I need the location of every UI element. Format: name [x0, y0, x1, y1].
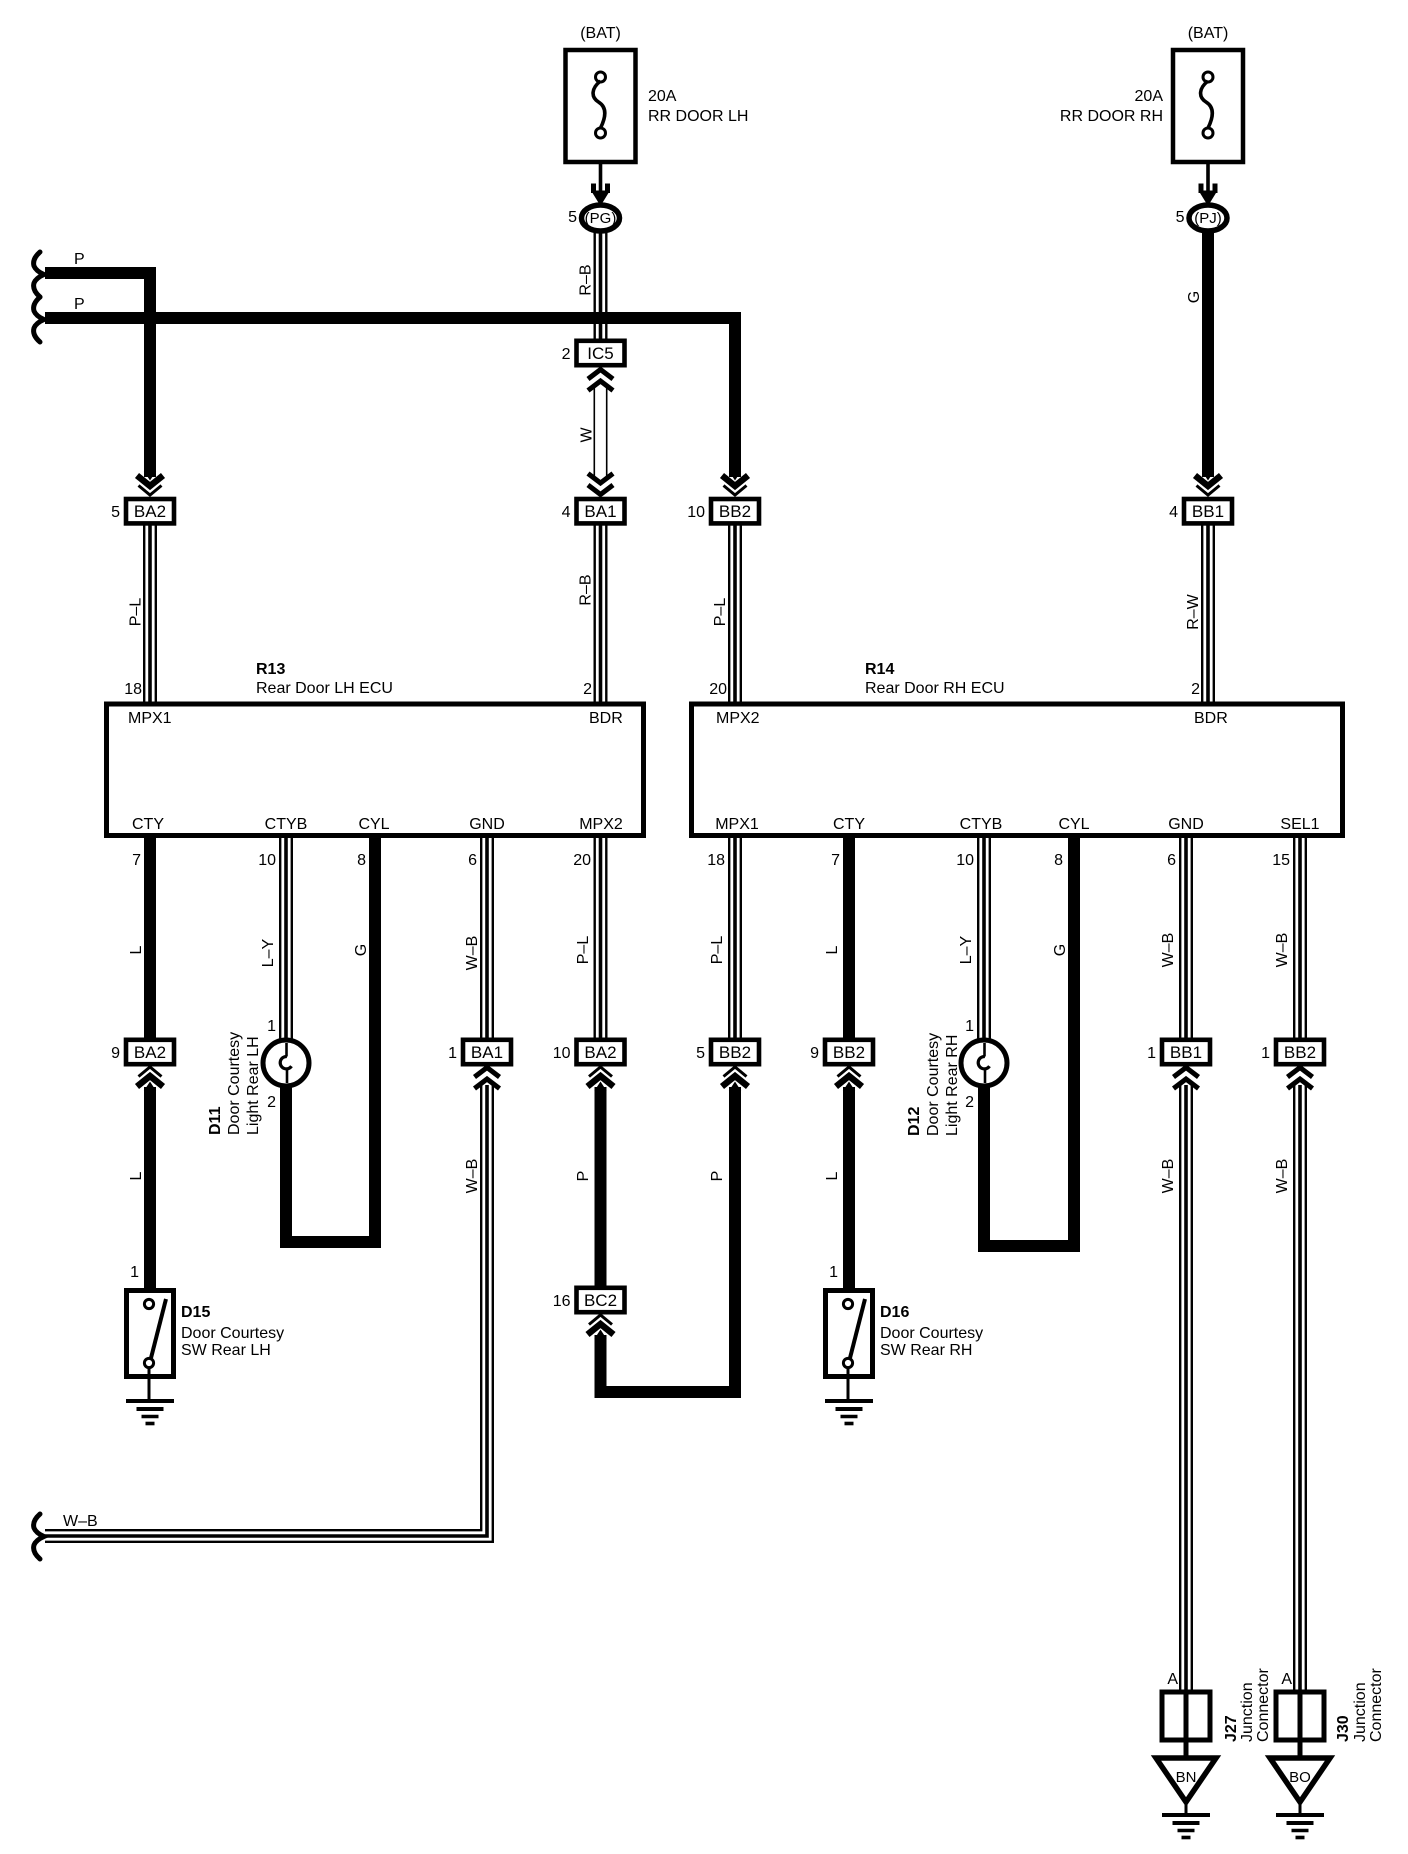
wire R-B from BA1 pin 4 to R13 BDR pin 2	[594, 520, 608, 704]
svg-text:W–B: W–B	[1160, 1159, 1177, 1194]
svg-text:16: 16	[553, 1293, 571, 1310]
arrow into BB2 pin 9	[838, 1067, 861, 1077]
svg-text:CYL: CYL	[1058, 816, 1089, 833]
svg-text:BB2: BB2	[719, 1043, 751, 1062]
wire P-L from R13 MPX2 pin 20 to BA2 pin 10	[594, 836, 608, 1042]
svg-text:10: 10	[553, 1045, 571, 1062]
svg-text:BN: BN	[1176, 1769, 1197, 1786]
ground	[1276, 1813, 1324, 1817]
wire W-B from BA1 pin 1 to left harness	[45, 1085, 487, 1536]
svg-text:10: 10	[687, 504, 705, 521]
svg-text:R13: R13	[256, 661, 285, 678]
svg-text:L: L	[824, 945, 841, 954]
svg-text:Door Courtesy: Door Courtesy	[880, 1325, 983, 1342]
wire thin fuse LH to arrow	[599, 160, 603, 192]
svg-text:P–L: P–L	[575, 936, 592, 965]
svg-text:BA2: BA2	[134, 1043, 166, 1062]
svg-text:L: L	[128, 945, 145, 954]
svg-text:L–Y: L–Y	[260, 938, 277, 967]
svg-text:W: W	[579, 427, 596, 443]
connector 10 BA2	[577, 1040, 625, 1064]
svg-text:BC2: BC2	[584, 1291, 617, 1310]
svg-text:A: A	[1281, 1671, 1292, 1688]
wire L from R14 CTY pin 7 to BB2 pin 9	[843, 836, 855, 1042]
lamp D11 Door Courtesy Light Rear LH	[263, 1040, 309, 1086]
svg-text:RR DOOR RH: RR DOOR RH	[1060, 108, 1163, 125]
harness continuation brace	[34, 252, 44, 297]
svg-text:6: 6	[1167, 852, 1176, 869]
svg-text:1: 1	[1147, 1045, 1156, 1062]
svg-text:BB2: BB2	[833, 1043, 865, 1062]
arrow into PJ	[1199, 191, 1218, 207]
arrow into BB1 pin 1	[1174, 1068, 1199, 1078]
svg-text:SW Rear RH: SW Rear RH	[880, 1342, 972, 1359]
svg-text:BB2: BB2	[719, 502, 751, 521]
connector 1 BB2	[1276, 1040, 1324, 1064]
connector 4 BA1	[577, 499, 625, 523]
svg-text:1: 1	[448, 1045, 457, 1062]
svg-text:10: 10	[956, 852, 974, 869]
svg-text:Door Courtesy: Door Courtesy	[181, 1325, 284, 1342]
svg-text:R–B: R–B	[578, 264, 595, 295]
connector 9 BA2	[126, 1040, 174, 1064]
svg-text:5: 5	[568, 209, 577, 226]
fuse 20A RR DOOR RH	[1173, 50, 1243, 162]
svg-text:Door Courtesy: Door Courtesy	[925, 1033, 942, 1136]
svg-text:(PG): (PG)	[585, 210, 617, 227]
svg-text:20: 20	[573, 852, 591, 869]
ground	[825, 1399, 873, 1403]
svg-text:Connector: Connector	[1255, 1668, 1272, 1742]
wire W from IC5 to BA1	[594, 384, 608, 478]
wire W-B from BB2 to junction connector J30	[1293, 1085, 1307, 1694]
svg-text:R–B: R–B	[578, 574, 595, 605]
svg-text:8: 8	[357, 852, 366, 869]
svg-text:4: 4	[562, 504, 571, 521]
svg-text:BA1: BA1	[471, 1043, 503, 1062]
wire L from BA2 pin 9 to switch D15 pin 1	[144, 1087, 156, 1291]
svg-text:(BAT): (BAT)	[1188, 25, 1229, 42]
svg-text:MPX1: MPX1	[715, 816, 759, 833]
wire P-L from R14 MPX1 pin 18 to BB2 pin 5	[728, 836, 742, 1042]
svg-text:W–B: W–B	[1274, 1159, 1291, 1194]
svg-text:BDR: BDR	[1194, 710, 1228, 727]
wire thin fuse RH to arrow	[1206, 160, 1210, 192]
svg-text:P: P	[709, 1171, 726, 1182]
svg-text:W–B: W–B	[464, 936, 481, 971]
connector 1 BA1	[463, 1040, 511, 1064]
svg-text:20A: 20A	[1135, 88, 1164, 105]
fuse 20A RR DOOR LH	[566, 50, 636, 162]
svg-text:MPX1: MPX1	[128, 710, 172, 727]
connector 2 IC5	[577, 341, 625, 365]
wire G loop from lamp D11 pin 2 to R13 CYL pin 8	[286, 836, 375, 1242]
svg-text:7: 7	[132, 852, 141, 869]
svg-text:CYL: CYL	[358, 816, 389, 833]
svg-text:5: 5	[111, 504, 120, 521]
connector 4 BB1	[1184, 499, 1232, 523]
connector 10 BB2	[711, 499, 759, 523]
connector 16 BC2	[577, 1288, 625, 1312]
svg-text:1: 1	[1261, 1045, 1270, 1062]
svg-text:GND: GND	[1168, 816, 1204, 833]
arrow into BA2 pin 10	[589, 1067, 612, 1077]
svg-text:1: 1	[965, 1018, 974, 1035]
svg-text:D15: D15	[181, 1304, 210, 1321]
svg-text:18: 18	[124, 681, 142, 698]
svg-text:G: G	[1052, 944, 1069, 956]
svg-text:7: 7	[831, 852, 840, 869]
svg-text:Rear Door LH ECU: Rear Door LH ECU	[256, 680, 393, 697]
harness continuation brace	[34, 297, 44, 342]
wire G from PJ to BB1 pin 4	[1202, 222, 1214, 477]
connector 1 BB1	[1162, 1040, 1210, 1064]
svg-text:Light Rear LH: Light Rear LH	[245, 1036, 262, 1135]
ground	[1162, 1813, 1210, 1817]
svg-text:J27: J27	[1223, 1715, 1240, 1742]
svg-text:BDR: BDR	[589, 710, 623, 727]
arrow into BC2 pin 16	[589, 1315, 612, 1325]
svg-text:1: 1	[267, 1018, 276, 1035]
svg-text:L: L	[128, 1171, 145, 1180]
wire P-L from BA2 pin 5 to R13 MPX1 pin 18	[143, 520, 157, 704]
svg-text:2: 2	[583, 681, 592, 698]
svg-text:P–L: P–L	[712, 598, 729, 627]
svg-text:L: L	[824, 1171, 841, 1180]
svg-text:D16: D16	[880, 1304, 909, 1321]
svg-text:8: 8	[1054, 852, 1063, 869]
arrow into BB2 pin 10	[724, 486, 747, 496]
arrow into BA2 pin 9	[139, 1067, 162, 1077]
svg-text:5: 5	[1176, 209, 1185, 226]
svg-text:CTY: CTY	[132, 816, 164, 833]
wire R-B from PG to IC5	[594, 222, 608, 343]
svg-text:(PJ): (PJ)	[1194, 210, 1222, 227]
wire P-L from BB2 pin 10 to R14 MPX2 pin 20	[728, 520, 742, 704]
svg-text:BB1: BB1	[1192, 502, 1224, 521]
connector 5 BA2	[126, 499, 174, 523]
wire W-B from BB1 to junction connector J27	[1179, 1085, 1193, 1694]
svg-text:1: 1	[829, 1264, 838, 1281]
svg-text:20A: 20A	[648, 88, 677, 105]
ECU R14 Rear Door RH ECU	[692, 704, 1343, 836]
svg-text:SEL1: SEL1	[1280, 816, 1319, 833]
ground triangle BO	[1270, 1758, 1330, 1802]
svg-text:BA2: BA2	[584, 1043, 616, 1062]
arrow into BB1 pin 4	[1197, 486, 1220, 496]
wire P bus lower from harness to BB2 pin 10	[45, 318, 735, 477]
svg-text:CTYB: CTYB	[960, 816, 1003, 833]
svg-text:Rear Door RH ECU: Rear Door RH ECU	[865, 680, 1005, 697]
wire W-B from R14 GND pin 6 to BB1 pin 1	[1179, 836, 1193, 1042]
wire R-W from BB1 pin 4 to R14 BDR pin 2	[1201, 520, 1215, 704]
svg-text:P: P	[74, 296, 85, 313]
svg-text:5: 5	[696, 1045, 705, 1062]
svg-text:P–L: P–L	[128, 598, 145, 627]
svg-text:A: A	[1167, 1671, 1178, 1688]
svg-text:BA2: BA2	[134, 502, 166, 521]
svg-text:Light Rear RH: Light Rear RH	[944, 1035, 961, 1136]
svg-text:L–Y: L–Y	[958, 935, 975, 964]
wire L from R13 CTY pin 7 to BA2 pin 9	[144, 836, 156, 1042]
svg-text:9: 9	[111, 1045, 120, 1062]
ground triangle BN	[1156, 1758, 1216, 1802]
wire L from BB2 pin 9 to switch D16 pin 1	[843, 1087, 855, 1291]
svg-text:W–B: W–B	[1274, 933, 1291, 968]
svg-text:G: G	[353, 944, 370, 956]
svg-text:RR DOOR LH: RR DOOR LH	[648, 108, 748, 125]
arrow into PG	[591, 191, 610, 207]
svg-text:R–W: R–W	[1185, 593, 1202, 629]
svg-text:CTYB: CTYB	[265, 816, 308, 833]
wire P loop from BC2 pin 16 to BB2 pin 5	[601, 1087, 736, 1392]
svg-text:W–B: W–B	[464, 1159, 481, 1194]
svg-text:P: P	[74, 251, 85, 268]
svg-text:SW Rear LH: SW Rear LH	[181, 1342, 271, 1359]
svg-text:(BAT): (BAT)	[580, 25, 621, 42]
svg-text:MPX2: MPX2	[716, 710, 760, 727]
svg-text:MPX2: MPX2	[579, 816, 623, 833]
svg-text:P: P	[575, 1171, 592, 1182]
svg-text:W–B: W–B	[63, 1513, 98, 1530]
svg-text:IC5: IC5	[587, 344, 613, 363]
connector oval PG	[582, 205, 620, 231]
svg-text:2: 2	[965, 1094, 974, 1111]
arrow into BB2 pin 1 (SEL1)	[1288, 1068, 1313, 1078]
ECU R13 Rear Door LH ECU	[107, 704, 644, 836]
svg-text:20: 20	[709, 681, 727, 698]
svg-text:1: 1	[130, 1264, 139, 1281]
svg-text:D12: D12	[906, 1107, 923, 1136]
svg-text:10: 10	[258, 852, 276, 869]
svg-text:Connector: Connector	[1368, 1668, 1385, 1742]
wire W-B from R14 SEL1 pin 15 to BB2 pin 1	[1293, 836, 1307, 1042]
arrow into BB2 pin 5	[724, 1067, 747, 1077]
wire L-Y from R13 CTYB pin 10 to lamp D11 pin 1	[279, 836, 293, 1048]
svg-text:P–L: P–L	[709, 936, 726, 965]
harness continuation brace	[34, 1514, 44, 1559]
svg-text:18: 18	[707, 852, 725, 869]
wire G loop from lamp D12 pin 2 to R14 CYL pin 8	[984, 836, 1074, 1246]
svg-text:2: 2	[562, 346, 571, 363]
wire P bus upper from harness to BA2 pin 5	[45, 273, 150, 477]
wire L-Y from R14 CTYB pin 10 to lamp D12 pin 1	[977, 836, 991, 1048]
svg-text:Junction: Junction	[1352, 1682, 1369, 1742]
svg-text:BO: BO	[1289, 1769, 1311, 1786]
svg-text:W–B: W–B	[1160, 933, 1177, 968]
svg-text:CTY: CTY	[833, 816, 865, 833]
svg-text:BA1: BA1	[584, 502, 616, 521]
arrow into BA1 pin 4	[588, 485, 613, 495]
svg-text:6: 6	[468, 852, 477, 869]
svg-text:BB2: BB2	[1284, 1043, 1316, 1062]
svg-text:BB1: BB1	[1170, 1043, 1202, 1062]
lamp D12 Door Courtesy Light Rear RH	[961, 1040, 1007, 1086]
svg-text:4: 4	[1169, 504, 1178, 521]
connector 9 BB2	[825, 1040, 873, 1064]
svg-text:GND: GND	[469, 816, 505, 833]
svg-text:2: 2	[1191, 681, 1200, 698]
ground	[126, 1399, 174, 1403]
svg-text:2: 2	[267, 1094, 276, 1111]
connector oval PJ	[1189, 205, 1227, 231]
connector 5 BB2	[711, 1040, 759, 1064]
svg-text:G: G	[1186, 291, 1203, 303]
svg-text:D11: D11	[207, 1106, 224, 1135]
arrow into BA1 pin 1	[475, 1068, 500, 1078]
arrow into IC5 pin 2	[588, 370, 613, 380]
svg-text:15: 15	[1272, 852, 1290, 869]
arrow into BA2 pin 5	[139, 486, 162, 496]
wire P from BA2 pin 10 to BC2 pin 16	[595, 1087, 607, 1291]
svg-text:Door Courtesy: Door Courtesy	[226, 1032, 243, 1135]
svg-text:J30: J30	[1335, 1715, 1352, 1742]
wire W-B from R13 GND pin 6 to BA1 pin 1	[480, 836, 494, 1042]
svg-text:Junction: Junction	[1239, 1682, 1256, 1742]
svg-text:9: 9	[810, 1045, 819, 1062]
svg-text:R14: R14	[865, 661, 894, 678]
